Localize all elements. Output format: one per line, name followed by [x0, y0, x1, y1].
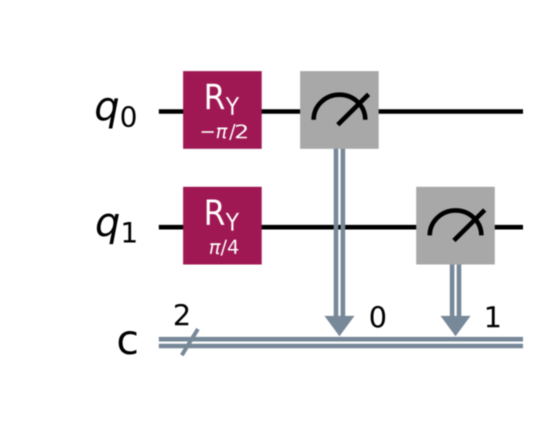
- wire q0: [159, 109, 523, 114]
- gate param -pi/2: [202, 131, 214, 133]
- gate label RY (q1): [207, 200, 239, 231]
- wire q1: [159, 225, 523, 230]
- measure M0 symbol: [314, 95, 366, 120]
- measure M0 box on q0: [300, 71, 379, 149]
- gate label RY (q0): [207, 84, 239, 115]
- clbit label 1: [487, 306, 500, 327]
- label q0: [96, 98, 136, 129]
- label q1: [97, 214, 136, 245]
- measure arrow q1 -> c: [452, 264, 459, 320]
- classical wire c (double line): [159, 339, 523, 346]
- label c: [119, 331, 137, 355]
- measure M1 box on q1: [416, 187, 495, 265]
- gate RY(-pi/2) box on q0: [183, 71, 262, 149]
- gate RY(pi/4) box on q1: [183, 187, 262, 265]
- clbit label 0: [371, 306, 386, 328]
- classical register size 2: [175, 304, 188, 325]
- measure M1 symbol: [430, 210, 482, 235]
- gate param pi/4: [210, 240, 238, 256]
- classical wire size slash: [182, 329, 198, 355]
- measure arrow q0 -> c: [336, 148, 343, 320]
